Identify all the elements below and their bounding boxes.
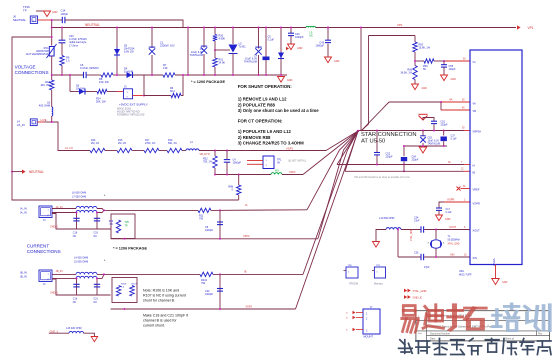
svg-text:3) Only one shunt can be used: 3) Only one shunt can be used at a time xyxy=(238,108,320,113)
resistor R24 xyxy=(97,89,107,93)
svg-text:L5 600 OHM: L5 600 OHM xyxy=(74,260,88,263)
svg-text:1: 1 xyxy=(376,272,378,274)
wire VA bus xyxy=(389,101,441,103)
net label VP1 mid xyxy=(397,23,403,27)
node star point xyxy=(357,130,359,132)
resistor R16 label xyxy=(91,139,100,145)
svg-text:3: 3 xyxy=(428,243,430,245)
note star connection xyxy=(361,132,417,145)
svg-text:L4 600 OHM: L4 600 OHM xyxy=(74,257,88,260)
wire gnd rail C53 xyxy=(403,145,447,147)
svg-text:790: 790 xyxy=(201,282,206,285)
svg-text:VOLTAGE: VOLTAGE xyxy=(15,65,36,70)
wire C40 top xyxy=(290,28,292,34)
shunt block box IA xyxy=(111,214,135,239)
inductor L4 xyxy=(76,272,97,274)
wire R31 top stub xyxy=(214,50,216,58)
svg-text:1000pF: 1000pF xyxy=(316,45,325,48)
svg-text:2: 2 xyxy=(48,279,50,281)
pin number VB xyxy=(462,108,465,110)
capacitor C20 label xyxy=(205,290,214,296)
jumper W3 (green) xyxy=(271,173,282,175)
inductor L8 xyxy=(52,107,53,116)
ground at L15 xyxy=(91,337,98,342)
power symbol at C51 xyxy=(419,114,428,120)
svg-text:GND_E: GND_E xyxy=(413,296,422,300)
svg-text:C26: C26 xyxy=(414,252,419,255)
shunt block box IB xyxy=(112,278,137,303)
wire crystal bottom stub xyxy=(435,248,437,257)
svg-text:0.1uF: 0.1uF xyxy=(446,211,453,214)
wire VSP3 mid diagonal xyxy=(303,131,358,175)
wire J4 to live rail xyxy=(44,121,52,123)
wire TP16 to ground flag xyxy=(36,10,47,12)
wire mount pin1 xyxy=(346,311,363,315)
svg-text:* = 1206 PACKAGE: * = 1206 PACKAGE xyxy=(113,247,147,251)
wire NEUTRAL bus xyxy=(52,27,306,29)
capacitor C30 xyxy=(59,40,66,43)
wire C52 bottom xyxy=(376,156,378,165)
resistor R31 xyxy=(213,58,217,67)
capacitor C64 xyxy=(401,157,407,161)
svg-text:50: 50 xyxy=(462,128,465,130)
wire U2 bottom xyxy=(232,54,234,76)
svg-text:* = 1206 PACKAGE: * = 1206 PACKAGE xyxy=(191,80,225,84)
wire IA merge xyxy=(97,209,104,213)
svg-text:C51 and C52 should be as close: C51 and C52 should be as close as possib… xyxy=(354,176,411,179)
node crystal top xyxy=(435,229,437,231)
wire C1 branch bottom xyxy=(151,55,153,75)
net label XOUT xyxy=(449,225,457,229)
svg-text:1000pF: 1000pF xyxy=(295,36,304,39)
svg-text:L11 660 OHM: L11 660 OHM xyxy=(379,217,394,220)
connector J3 xyxy=(39,206,52,218)
node R22 top xyxy=(214,150,216,152)
connector J5 xyxy=(124,89,133,99)
ground below C40 xyxy=(288,44,303,50)
svg-text:TANTALUM: TANTALUM xyxy=(428,143,441,146)
node C64 IB xyxy=(403,170,405,172)
svg-text:Size: Size xyxy=(418,333,423,335)
svg-text:IA: IA xyxy=(473,164,476,168)
wire bottom bus seg5 xyxy=(175,74,287,76)
svg-text:C16: C16 xyxy=(73,298,78,301)
wire R50 top stub xyxy=(414,36,416,43)
capacitor C1 label xyxy=(160,41,175,48)
svg-text:C18: C18 xyxy=(73,232,78,235)
pin number VREF xyxy=(463,186,466,188)
wire VA pin stub xyxy=(441,101,470,103)
svg-text:GND: GND xyxy=(502,281,508,284)
wire R88 top stub xyxy=(238,175,240,186)
svg-text:50K, 2W: 50K, 2W xyxy=(96,101,106,104)
capacitor C2 label xyxy=(190,48,204,57)
inductor L9 label xyxy=(310,32,314,38)
wire R22 top stub xyxy=(214,151,216,157)
wire D6 branch xyxy=(69,75,71,92)
wire bottom bus seg1 xyxy=(52,74,84,76)
no-connect at VREF xyxy=(457,187,461,191)
svg-text:XTAL_GND: XTAL_GND xyxy=(413,289,427,293)
svg-text:0: 0 xyxy=(232,189,234,192)
svg-text:VRP3A: VRP3A xyxy=(473,130,482,134)
svg-text:IA: IA xyxy=(448,160,451,164)
inductor L3 label xyxy=(190,141,193,144)
wire IA pair bottom xyxy=(52,212,76,214)
svg-text:1000pF: 1000pF xyxy=(205,293,214,296)
net label IA right xyxy=(245,204,248,207)
svg-text:6.8V 1W: 6.8V 1W xyxy=(124,51,134,54)
wire star vertical B xyxy=(361,36,369,132)
capacitor C26 value xyxy=(424,266,430,269)
ground below D7 xyxy=(278,77,293,83)
wire C1 branch top xyxy=(151,28,153,49)
U5 pin name VB xyxy=(473,109,477,113)
svg-text:27pF: 27pF xyxy=(414,220,420,223)
capacitor C16 branch xyxy=(76,278,78,295)
svg-text:400 OHM: 400 OHM xyxy=(39,104,50,108)
svg-text:XTAL_GND: XTAL_GND xyxy=(410,229,413,241)
pin number VA xyxy=(462,100,465,102)
inductor L11 xyxy=(386,228,401,230)
svg-text:IB_IN: IB_IN xyxy=(20,275,27,279)
resistor R9 xyxy=(60,56,64,66)
wire bus seg R15-R17 xyxy=(132,150,144,152)
resistor R30 xyxy=(213,35,217,42)
label block 1206 xyxy=(263,57,270,61)
wire VSP3 rail xyxy=(215,174,271,176)
testpoint TP5 (green) xyxy=(125,221,130,228)
resistor R36 in box xyxy=(116,220,120,233)
svg-text:4.99K: 4.99K xyxy=(219,38,226,41)
resistor R15 xyxy=(117,148,132,152)
wire D7 top xyxy=(280,28,282,53)
wire R66 top stub xyxy=(414,61,416,66)
connector MOUNT label xyxy=(364,335,374,339)
svg-text:2) POPULATE R88: 2) POPULATE R88 xyxy=(238,102,276,107)
svg-text:AT U5-50: AT U5-50 xyxy=(361,138,385,144)
crystal Y1 xyxy=(431,240,442,248)
capacitor C55 xyxy=(441,65,447,67)
svg-text:NC: NC xyxy=(310,35,314,38)
svg-text:2: 2 xyxy=(127,97,129,99)
net label IB right xyxy=(244,271,247,274)
wire C51 bottom xyxy=(433,124,435,130)
wire VOPR stub xyxy=(444,201,470,203)
inductor L3 xyxy=(186,149,199,151)
svg-text:0.1uF: 0.1uF xyxy=(268,39,275,42)
ground below C43 xyxy=(325,57,340,63)
wire top bus from J6 to C14 xyxy=(52,19,62,21)
node V1/C55 xyxy=(443,60,445,62)
svg-text:XTAL_GND: XTAL_GND xyxy=(448,243,460,246)
svg-text:XIN: XIN xyxy=(473,256,477,260)
wire VA divider bus start xyxy=(52,122,90,151)
capacitor C21 branch xyxy=(96,278,98,295)
note C18 C21 usage xyxy=(143,314,188,328)
svg-text:3.4: 3.4 xyxy=(121,286,125,288)
pin number IB xyxy=(461,169,464,171)
svg-text:1) POPULATE L9 AND L12: 1) POPULATE L9 AND L12 xyxy=(238,129,292,134)
resistor R7 label xyxy=(163,63,168,70)
wire C17 bottom xyxy=(438,210,440,214)
resistor R106 in box xyxy=(116,286,120,297)
svg-text:590, 1%: 590, 1% xyxy=(168,142,178,145)
svg-text:50.355MHz: 50.355MHz xyxy=(448,238,461,241)
zener diode D5 xyxy=(114,47,120,57)
capacitor C16 label xyxy=(73,298,78,305)
wire GND_2 IB xyxy=(52,279,111,295)
net arrow VP1 xyxy=(517,25,534,29)
capacitor C37 label xyxy=(451,135,458,141)
crystal Y1 label xyxy=(448,235,461,241)
capacitor C20 xyxy=(217,289,223,292)
svg-text:220pF: 220pF xyxy=(412,159,419,162)
svg-text:1N4148: 1N4148 xyxy=(124,70,134,74)
capacitor C52 label xyxy=(386,153,394,159)
resistor R15 label xyxy=(118,139,127,145)
capacitor C53 label xyxy=(428,137,441,146)
wire R18 to L8 xyxy=(51,90,53,107)
svg-text:*: * xyxy=(104,194,106,198)
wire D5 branch top xyxy=(116,28,118,48)
pin number IA xyxy=(461,162,463,164)
wire IA pair top xyxy=(52,208,76,210)
capacitor C51 xyxy=(431,121,437,123)
wire IB bus xyxy=(104,273,200,275)
wire XIN left xyxy=(398,256,421,258)
svg-text:CONNECTIONS: CONNECTIONS xyxy=(27,249,61,254)
U5 pin name VRP3A xyxy=(473,130,482,134)
wire VP1 bus after L9 xyxy=(316,27,517,29)
wire R24 to J5 xyxy=(107,91,117,93)
wire V1 pin stub xyxy=(444,60,470,62)
U5 pin name IB xyxy=(473,170,476,174)
resistor R17 label xyxy=(145,139,156,145)
wire C64 branch xyxy=(403,146,405,156)
pin number VOPR xyxy=(464,199,466,201)
wire GND_3 to L15 xyxy=(49,332,69,334)
wire top of R50 box xyxy=(369,35,416,37)
svg-text:15.8K, 1%: 15.8K, 1% xyxy=(419,47,431,50)
svg-text:7: 7 xyxy=(461,162,463,164)
wire node to U2 ref xyxy=(215,49,230,51)
svg-text:L7 600 OHM: L7 600 OHM xyxy=(72,195,86,198)
svg-text:TANTALUM: TANTALUM xyxy=(244,61,257,64)
test block TP4 xyxy=(263,156,274,169)
connector J2 designator xyxy=(43,284,46,286)
wire bus seg R19-L3 xyxy=(182,150,186,152)
svg-text:VREF: VREF xyxy=(473,188,480,192)
power arrow near D7 xyxy=(286,47,289,51)
wire neutral stub xyxy=(12,171,22,173)
pin number VRP3A xyxy=(462,128,465,130)
wire bottom bus seg4 xyxy=(133,74,163,76)
svg-text:D: D xyxy=(346,318,348,320)
svg-text:NEUTRAL: NEUTRAL xyxy=(85,23,100,27)
capacitor C14 xyxy=(62,17,65,23)
svg-text:0.47uF, 630VDC: 0.47uF, 630VDC xyxy=(80,66,99,70)
wire L15 to gnd xyxy=(84,333,95,336)
wire VRP3A bus xyxy=(358,130,464,132)
svg-text:VP1: VP1 xyxy=(397,23,403,27)
capacitor C43 xyxy=(325,40,331,42)
diode D6 label xyxy=(76,85,85,91)
svg-text:GND_2: GND_2 xyxy=(50,292,59,295)
resistor R19 label xyxy=(168,139,178,145)
resistor R104 label xyxy=(201,279,208,285)
resistor R8 label xyxy=(99,77,109,84)
svg-text:1B_IN: 1B_IN xyxy=(56,270,63,273)
svg-text:NEUTRAL: NEUTRAL xyxy=(13,18,26,22)
svg-text:Date:: Date: xyxy=(430,338,436,341)
svg-text:2: 2 xyxy=(464,199,466,201)
wire GND_2 IA xyxy=(52,214,111,230)
svg-text:2) REMOVE R88: 2) REMOVE R88 xyxy=(238,135,271,140)
pin number XOUT xyxy=(464,227,466,229)
svg-text:GND: GND xyxy=(52,11,58,14)
wire J4 pin stub xyxy=(37,121,44,123)
wire bus seg R17-R19 xyxy=(159,150,167,152)
svg-text:36.0K, 1%: 36.0K, 1% xyxy=(400,72,412,75)
svg-text:2M, 1%: 2M, 1% xyxy=(91,142,100,145)
wire branch x266 xyxy=(265,28,267,76)
inductor L4 L5 labels xyxy=(74,257,88,264)
pin number XIN xyxy=(464,254,467,256)
svg-text:VA: VA xyxy=(277,162,280,165)
svg-text:J3: J3 xyxy=(43,220,46,222)
wire J5 pin2 to bus xyxy=(143,75,145,96)
connector J2 label xyxy=(20,271,27,279)
wire star diagonal IA bottom xyxy=(318,131,358,238)
svg-text:W3: W3 xyxy=(275,170,279,173)
svg-text:VB_DYN: VB_DYN xyxy=(200,153,210,156)
wire C30 branch top xyxy=(61,28,63,41)
note R106 usage xyxy=(143,289,186,303)
net arrow GND_E xyxy=(404,295,422,299)
svg-text:0.1uF: 0.1uF xyxy=(451,138,458,141)
capacitor C8 xyxy=(217,222,223,225)
resistor R36 label xyxy=(109,221,114,226)
wire star diagonal IA top xyxy=(307,131,358,210)
capacitor C21 label xyxy=(94,298,99,305)
net arrow XTAL_GND xyxy=(404,289,427,293)
net arrow NEUTRAL left xyxy=(22,169,44,174)
wire IB diagonal to star xyxy=(345,131,358,171)
testpoint TP16 label xyxy=(23,5,30,12)
wire J5 pin2 stub xyxy=(133,95,145,97)
ground below C17 xyxy=(436,215,451,221)
wire VOPR to C17 xyxy=(439,202,444,208)
wire IB pair bottom xyxy=(52,277,76,279)
svg-text:220pF: 220pF xyxy=(386,156,394,159)
wire left rail top xyxy=(12,37,239,200)
wire top bus C14 to corner xyxy=(65,20,183,28)
svg-text:Sheet of: Sheet of xyxy=(505,338,514,341)
svg-text:GND: GND xyxy=(451,78,457,81)
capacitor C55 label xyxy=(449,65,457,71)
svg-text:GND: GND xyxy=(445,218,451,221)
wire IB pin stub xyxy=(464,170,470,172)
svg-text:1.5: 1.5 xyxy=(66,59,70,63)
net label VSP1 xyxy=(286,146,294,150)
wire TP4 red wire 1 xyxy=(247,160,263,162)
node J5 pin2 xyxy=(143,95,145,97)
wire R56 to V1 node xyxy=(434,60,444,62)
resistor R22 xyxy=(213,156,217,168)
wire R30 top xyxy=(214,28,216,35)
wire live rail upper xyxy=(51,20,53,46)
svg-text:C21: C21 xyxy=(94,298,99,301)
node R30 R31 junction xyxy=(214,49,216,51)
svg-text:1: 1 xyxy=(266,160,268,162)
wire C55 top xyxy=(443,61,445,65)
ground below C53 xyxy=(419,147,427,153)
resistor R30 label xyxy=(219,35,226,41)
svg-text:NC: NC xyxy=(94,301,98,304)
resistor R22 label xyxy=(203,158,213,164)
star mark L4L5 xyxy=(104,259,106,263)
svg-text:1: 1 xyxy=(127,92,129,94)
svg-text:Note: R106 is 10K and: Note: R106 is 10K and xyxy=(143,289,179,293)
resistor R9 label xyxy=(66,56,70,63)
capacitor C16 xyxy=(73,284,79,287)
node left rail / neutral stub xyxy=(11,171,13,173)
net label VOPR xyxy=(447,197,454,201)
svg-text:VB: VB xyxy=(473,109,477,113)
node C64 rail xyxy=(403,145,405,147)
svg-text:GND: GND xyxy=(334,60,340,63)
wire U5 gnd stem xyxy=(495,265,497,279)
inductor L6 L7 labels xyxy=(72,192,86,199)
net label XTAL_GND at Y1 xyxy=(448,243,460,246)
inductor L6 xyxy=(76,206,97,208)
svg-text:TP: TP xyxy=(125,225,128,228)
connector J4 label xyxy=(17,120,25,127)
capacitor C53 xyxy=(420,136,426,143)
resistor R6 xyxy=(171,93,181,97)
wire J5 pin1 stub xyxy=(117,91,124,93)
U5 pin name XOUT xyxy=(473,229,481,233)
connector J5 notes xyxy=(117,108,145,117)
U5 pin name XIN xyxy=(473,256,477,260)
wire bottom bus seg2 xyxy=(87,74,101,76)
net label VSP3 IA xyxy=(243,235,250,238)
wire C64 to IA line xyxy=(403,161,405,171)
capacitor C5 label xyxy=(268,36,275,42)
svg-text:(S) NOT INSTALL: (S) NOT INSTALL xyxy=(288,160,307,163)
node xtal gnd xyxy=(397,229,399,231)
note 1206 package top xyxy=(191,80,225,84)
svg-text:WAGO 51002: WAGO 51002 xyxy=(117,108,132,111)
resistor R50 xyxy=(413,42,417,52)
connector J3 designator xyxy=(43,220,46,222)
svg-text:12: 12 xyxy=(461,169,464,171)
capacitor C14 label xyxy=(61,9,69,16)
svg-text:Rev: Rev xyxy=(538,333,543,336)
wire bottom bus seg3 xyxy=(113,74,126,76)
svg-text:17.5mm: 17.5mm xyxy=(69,44,78,47)
capacitor C17 label xyxy=(446,208,453,214)
U2 label xyxy=(239,43,247,49)
svg-text:*: * xyxy=(104,259,106,263)
capacitor C4 label xyxy=(233,159,242,165)
capacitor C24 xyxy=(421,226,424,232)
capacitor C2 xyxy=(201,46,207,54)
svg-text:TANTALUM: TANTALUM xyxy=(190,54,203,57)
wire bus seg L3-end xyxy=(199,150,326,152)
crystal pin 4 xyxy=(443,243,445,245)
